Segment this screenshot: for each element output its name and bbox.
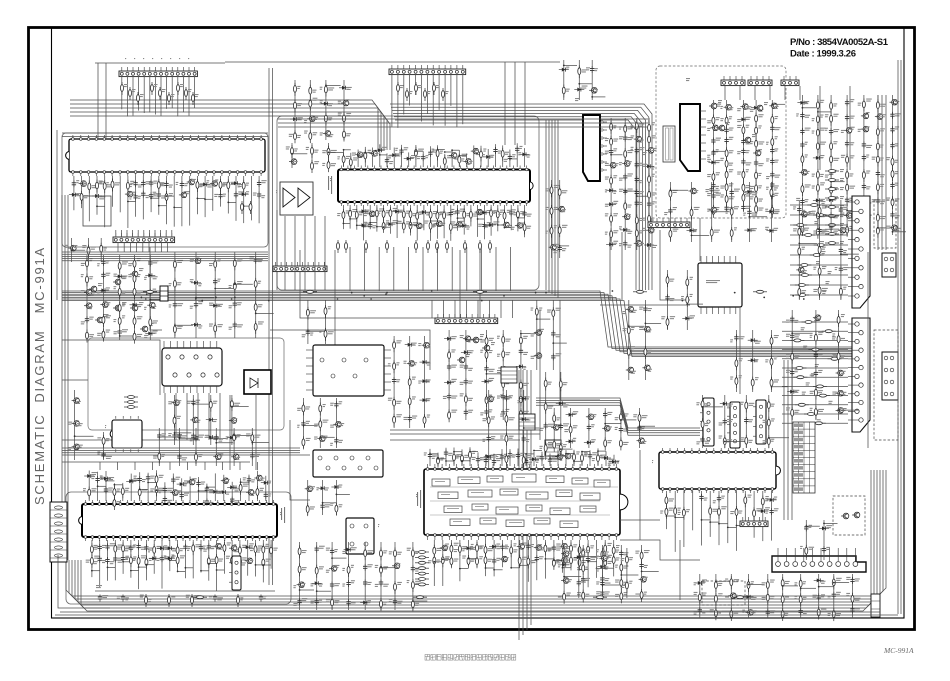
value label [218, 491, 223, 494]
wire micom lower pin2 [99, 540, 101, 588]
value label [199, 184, 203, 187]
wire IC601 upper stub2 [358, 155, 365, 157]
wire IC601 upper pin19 [473, 145, 475, 167]
capacitor C181 [862, 154, 866, 161]
wire bottom bus 2 [72, 470, 880, 602]
resistor R242 [801, 223, 804, 236]
value label [766, 158, 769, 161]
value label [234, 556, 239, 559]
resistor R380 [450, 543, 453, 556]
wire sound parts col0 [610, 118, 612, 250]
resistor R215 [648, 189, 651, 202]
value label [849, 198, 852, 201]
value label [453, 211, 456, 214]
connector P404 [545, 440, 561, 456]
wire scart2 feed 8 [790, 284, 848, 286]
junction [379, 154, 381, 156]
wire scart1 parts col0 [791, 310, 793, 420]
value label [670, 279, 675, 282]
wire IC501 upper pin24 [613, 455, 615, 466]
capacitor C167 [770, 192, 774, 199]
value label [843, 207, 847, 210]
value label [460, 209, 465, 212]
capacitor C214 [247, 476, 251, 483]
transistor Q112 [95, 317, 103, 323]
value label [114, 286, 117, 289]
junction [197, 198, 199, 200]
value label [815, 364, 819, 367]
value label [500, 210, 504, 213]
wire net h6 [62, 340, 160, 395]
wire IC202 lower parts stub0 [175, 432, 192, 434]
value label [498, 212, 502, 215]
wire micom lower pin9 [153, 540, 155, 574]
junction [798, 243, 800, 245]
capacitor C171 [800, 198, 804, 205]
wire IC501 upper stub18 [574, 460, 582, 462]
value label [141, 555, 147, 558]
resistor R382 [458, 543, 461, 556]
value label [161, 195, 165, 198]
value label [141, 547, 147, 550]
wire IC501 upper stub12 [526, 453, 534, 455]
value label [162, 89, 166, 92]
diode D147 [219, 490, 229, 494]
resistor R234 [755, 182, 758, 195]
junction [369, 222, 371, 224]
value label [482, 154, 485, 157]
value label [479, 545, 484, 548]
resistor R199 [327, 146, 330, 159]
value label [802, 392, 806, 395]
value label [424, 221, 428, 224]
value label [418, 149, 424, 152]
resistor R150 [433, 82, 436, 95]
wire scart1 feed 1 [782, 330, 848, 332]
wire sound parts stub0 [611, 154, 622, 156]
value label [866, 186, 870, 189]
value label [393, 220, 399, 223]
wire power audio parts col4 [771, 100, 773, 212]
capacitor C160 [741, 204, 745, 211]
wire micom lower stub4 [123, 561, 131, 563]
junction [158, 205, 160, 207]
value label [138, 196, 141, 199]
capacitor C119 [148, 260, 152, 267]
value label [84, 183, 87, 186]
capacitor C241 [444, 450, 448, 457]
resistor R243 [816, 99, 819, 112]
value label [520, 211, 525, 214]
value label [810, 391, 814, 394]
wire P301 pin1 [391, 75, 393, 127]
value label [766, 176, 770, 179]
label DAM [276, 190, 277, 193]
wire IC601 lower pin10 [403, 205, 405, 228]
value label [820, 231, 826, 234]
resistor R126 [86, 330, 89, 343]
value label [139, 268, 144, 271]
value label [346, 210, 352, 213]
resistor R349 [238, 544, 241, 557]
capacitor C212 [205, 499, 209, 506]
value label [83, 488, 86, 491]
value label [106, 330, 110, 333]
value label [613, 191, 616, 194]
wire micom upper pin2 [97, 472, 99, 501]
value label [651, 245, 657, 248]
value label [346, 156, 350, 159]
capacitor C178 [845, 140, 849, 147]
junction [130, 479, 132, 481]
resistor R293 [797, 264, 811, 267]
connector P102 [113, 233, 175, 243]
wire central bus 5 [62, 299, 852, 355]
resistor R284 [666, 316, 669, 329]
value label [250, 560, 253, 563]
wire IC601 upper pin7 [386, 153, 388, 167]
resistor R328 [121, 485, 124, 498]
resistor R245 [816, 127, 819, 140]
value label [506, 381, 511, 384]
value label [833, 187, 837, 190]
value label [440, 151, 443, 154]
value label [89, 306, 92, 309]
wire IC102 lower pin20 [220, 176, 222, 207]
resistor R173 [429, 209, 432, 222]
wire scart1 parts stub0 [792, 332, 812, 334]
wire IC601 upper pin4 [364, 147, 366, 167]
wire IC102 lower pin2 [81, 176, 83, 208]
value label [605, 204, 609, 207]
wire IC501 upper pin6 [469, 447, 471, 466]
capacitor C165 [770, 171, 774, 178]
wire central bus 4 [62, 297, 852, 353]
resistor R123 [249, 201, 252, 214]
capacitor C108 [157, 192, 161, 199]
capacitor C156 [724, 205, 728, 212]
value label [527, 155, 531, 158]
value label [812, 131, 815, 134]
capacitor C102 [133, 180, 137, 187]
value label [619, 226, 622, 229]
value label [619, 136, 623, 139]
wire power audio parts col2 [742, 100, 744, 212]
junction [383, 226, 385, 228]
wire micom lower pin16 [208, 540, 210, 581]
value label [639, 218, 643, 221]
value label [108, 477, 114, 480]
transistor Q179 [440, 545, 448, 551]
wire left of IC601 parts stub2 [329, 151, 344, 153]
value label [840, 232, 844, 235]
junction [484, 225, 486, 227]
capacitor C230 [447, 364, 451, 371]
transistor Q149 [799, 170, 807, 176]
value label [775, 116, 779, 119]
connector SK100 SCART2 half [848, 196, 870, 308]
value label [520, 453, 525, 456]
resistor R266 [876, 141, 879, 154]
value label [168, 401, 172, 404]
junction [243, 205, 245, 207]
wire net v6 [699, 218, 701, 261]
value label [253, 193, 257, 196]
wire scart2 parts col1 [819, 200, 821, 300]
value label [117, 489, 121, 492]
junction [156, 489, 158, 491]
transistor Q170 [229, 545, 237, 551]
value label [716, 117, 720, 120]
wire IC202 lower parts col0 [174, 395, 176, 445]
diode D165 [609, 460, 619, 464]
junction [573, 460, 575, 462]
capacitor C239 [519, 348, 523, 355]
value label [322, 163, 325, 166]
value label [375, 153, 379, 156]
transistor Q146 [755, 105, 763, 111]
junction [119, 335, 121, 337]
diode D109 [145, 273, 155, 277]
capacitor C118 [118, 329, 122, 336]
capacitor C124 [101, 452, 105, 459]
capacitor C130 [508, 154, 512, 161]
wire scart1 feed 5 [782, 367, 848, 369]
capacitor C159 [741, 158, 745, 165]
value label [880, 128, 885, 131]
wire net v4 [459, 250, 461, 318]
wire IC102 lower pin11 [150, 176, 152, 212]
value label [707, 128, 710, 131]
wire IC501 upper stub5 [470, 451, 478, 453]
value label [718, 100, 722, 103]
capacitor C201 [814, 370, 818, 377]
transistor Q119 [229, 418, 237, 424]
value label [353, 157, 358, 160]
resistor R177 [449, 221, 452, 234]
value label [613, 148, 617, 151]
value label [812, 174, 815, 177]
resistor R147 [406, 88, 409, 101]
value label [420, 224, 425, 227]
wire central bus 6 [62, 301, 852, 357]
value label [447, 155, 453, 158]
value label [584, 452, 588, 455]
value label [472, 457, 476, 460]
value label [793, 206, 796, 209]
value label [106, 302, 111, 305]
value label [475, 150, 479, 153]
resistor R294 [798, 274, 812, 277]
capacitor C231 [447, 393, 451, 400]
wire IC202 lower parts col1 [192, 395, 194, 445]
svg-text:SCHEMATIC DIAGRAM MC-991A: SCHEMATIC DIAGRAM MC-991A [32, 247, 47, 505]
value label [758, 208, 763, 211]
resistor R112 [96, 180, 99, 193]
wire IC501 upper stub4 [462, 460, 470, 462]
resistor R108 [185, 87, 188, 100]
wire left bus 0 [61, 195, 63, 560]
value label [880, 158, 883, 161]
capacitor C190 [890, 211, 894, 218]
value label [137, 334, 142, 337]
shield box [83, 196, 111, 226]
resistor R353 [262, 557, 265, 570]
resistor R341 [153, 544, 156, 557]
wire micom lower pin5 [122, 540, 124, 574]
value label [201, 482, 205, 485]
wire IC601 lower pin18 [457, 205, 459, 231]
wire micom upper pin22 [265, 476, 267, 501]
value label [149, 558, 153, 561]
value label [643, 228, 646, 231]
diode D116 [404, 157, 414, 161]
value label [802, 210, 806, 213]
value label [841, 408, 847, 411]
value label [100, 477, 104, 480]
junction [206, 486, 208, 488]
wire micom lower pin22 [255, 540, 257, 577]
value label [775, 185, 779, 188]
value label [833, 355, 837, 358]
resistor R325 [88, 487, 91, 500]
value label [670, 298, 675, 301]
value label [97, 290, 100, 293]
value label [234, 436, 237, 439]
wire IC501 upper stub15 [550, 457, 558, 459]
wire IC601 lower stub2 [357, 224, 364, 226]
diode D140 [682, 316, 692, 320]
wire micom upper stub13 [199, 490, 207, 492]
resistor R253 [830, 140, 833, 153]
resistor R217 [712, 115, 715, 128]
wire IC501 upper stub19 [582, 451, 590, 453]
value label [866, 99, 872, 102]
capacitor C106 [149, 180, 153, 187]
wire IC501 upper pin20 [581, 451, 583, 466]
diode D115 [389, 153, 399, 157]
value label [489, 350, 493, 353]
value label [661, 316, 665, 319]
value label [822, 229, 827, 232]
value label [188, 89, 192, 92]
junction [169, 560, 171, 562]
wire IC601 lower stub10 [411, 224, 418, 226]
value label [628, 205, 632, 208]
value label [331, 163, 336, 166]
wire bus top bend 3 [70, 112, 387, 150]
value label [841, 314, 845, 317]
value label [138, 184, 143, 187]
capacitor C235 [484, 365, 488, 372]
value label [608, 463, 612, 466]
wire IC601 lower pin6 [376, 205, 378, 232]
transistor Q168 [254, 475, 262, 481]
value label [880, 174, 885, 177]
wire net h2b [62, 439, 200, 441]
resistor R329 [138, 486, 141, 499]
transistor Q103 [179, 192, 187, 198]
diode D139 [826, 198, 836, 202]
value label [382, 147, 386, 150]
resistor R254 [830, 153, 833, 166]
resistor R172 [416, 210, 419, 223]
value label [473, 214, 478, 217]
wire scart1 feed 10 [782, 413, 848, 415]
wire IC501 upper pin3 [445, 448, 447, 466]
value label [140, 94, 144, 97]
resistor R339 [137, 555, 140, 568]
diode D127 [606, 188, 616, 192]
value label [81, 290, 85, 293]
value label [716, 127, 720, 130]
resistor R333 [256, 486, 259, 499]
value label [619, 243, 622, 246]
value label [114, 331, 118, 334]
resistor R358 [448, 409, 451, 422]
wire IC601 upper pin12 [422, 151, 424, 167]
IC801 SIP in dashed box [680, 104, 700, 171]
resistor R114 [111, 179, 114, 192]
resistor R352 [262, 544, 265, 557]
wire P102 pin11 [171, 230, 173, 237]
IC501 TDA8374 deflection processor [424, 464, 628, 540]
wire micom lower pin24 [270, 540, 272, 569]
wire IC102 lower pin5 [104, 176, 106, 227]
transistor Q114 [84, 303, 92, 309]
value label [468, 368, 473, 371]
transistor Q131 [515, 223, 523, 229]
resistor R187 [365, 240, 368, 253]
value label [818, 370, 822, 373]
capacitor C112 [234, 191, 238, 198]
value label [122, 302, 127, 305]
wire deflection parts stub2 [487, 373, 503, 375]
value label [188, 546, 191, 549]
wire net v10 [560, 300, 600, 400]
resistor R157 [443, 155, 446, 168]
value label [164, 555, 167, 558]
value label [260, 488, 264, 491]
resistor R343 [176, 554, 179, 567]
diode D136 [797, 101, 807, 105]
resistor R373 [469, 449, 472, 462]
value label [872, 157, 876, 160]
value label [440, 457, 444, 460]
transistor Q133 [608, 162, 616, 168]
value label [775, 136, 778, 139]
diode D120 [359, 223, 369, 227]
value label [177, 400, 182, 403]
wire IC202 lower parts stub1 [193, 403, 210, 405]
value label [471, 559, 474, 562]
junction [231, 406, 233, 408]
resistor R337 [122, 542, 125, 555]
capacitor C207 [163, 496, 167, 503]
wire IC601 upper pin2 [350, 153, 352, 167]
resistor R205 [610, 228, 613, 241]
diode D160 [482, 379, 492, 383]
wire micom upper pin18 [231, 482, 233, 501]
connector P101 [119, 67, 197, 77]
value label [639, 230, 643, 233]
resistor R377 [433, 545, 436, 558]
wire central bus 0 [62, 291, 852, 347]
wire micom upper pin21 [256, 471, 258, 501]
value label [858, 103, 862, 106]
wire IC102 lower pin21 [227, 176, 229, 214]
wire micom lower stub12 [185, 567, 193, 569]
